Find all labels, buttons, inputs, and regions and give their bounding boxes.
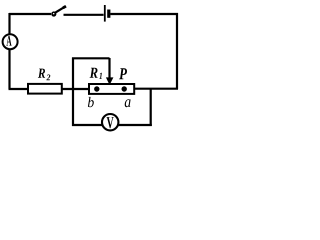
wire right vertical xyxy=(176,13,178,89)
voltmeter V circle xyxy=(102,114,118,130)
wire slider branch horizontal xyxy=(72,57,110,59)
label R1 xyxy=(90,68,98,78)
battery short plate (-) xyxy=(107,10,110,18)
label R2 xyxy=(38,69,45,78)
wire slider arrow shaft xyxy=(108,58,110,79)
rheostat terminal dot b xyxy=(94,86,99,91)
rheostat R1 box xyxy=(89,84,134,94)
wire voltmeter loop bottom-right xyxy=(118,124,151,126)
label b xyxy=(88,97,94,107)
wire main bottom-left horizontal to R2 xyxy=(9,88,28,90)
slider arrowhead P xyxy=(106,77,114,85)
resistor R2 box xyxy=(28,84,62,94)
battery long plate (+) xyxy=(104,5,106,22)
label P xyxy=(119,68,127,79)
wire voltmeter loop right vertical xyxy=(150,89,152,126)
wire slider branch vertical (P to main wire to voltmeter loop) xyxy=(72,58,74,127)
wire left vertical top (corner to ammeter) xyxy=(8,13,10,35)
wire top-left horizontal to switch xyxy=(9,13,51,15)
rheostat terminal dot a xyxy=(122,86,127,91)
wire battery to top-right corner xyxy=(110,13,178,15)
wire voltmeter loop bottom-left xyxy=(72,124,102,126)
wire R2 to rheostat xyxy=(62,88,89,90)
label a xyxy=(125,99,131,107)
ammeter A letter xyxy=(6,36,11,46)
switch S blade xyxy=(54,6,67,14)
wire left vertical bottom (ammeter to corner) xyxy=(8,50,10,90)
voltmeter V letter xyxy=(107,117,114,128)
ammeter A circle xyxy=(3,34,18,49)
switch S pivot ring xyxy=(51,11,56,16)
wire switch to battery xyxy=(64,14,104,16)
wire rheostat to right corner xyxy=(134,88,178,90)
